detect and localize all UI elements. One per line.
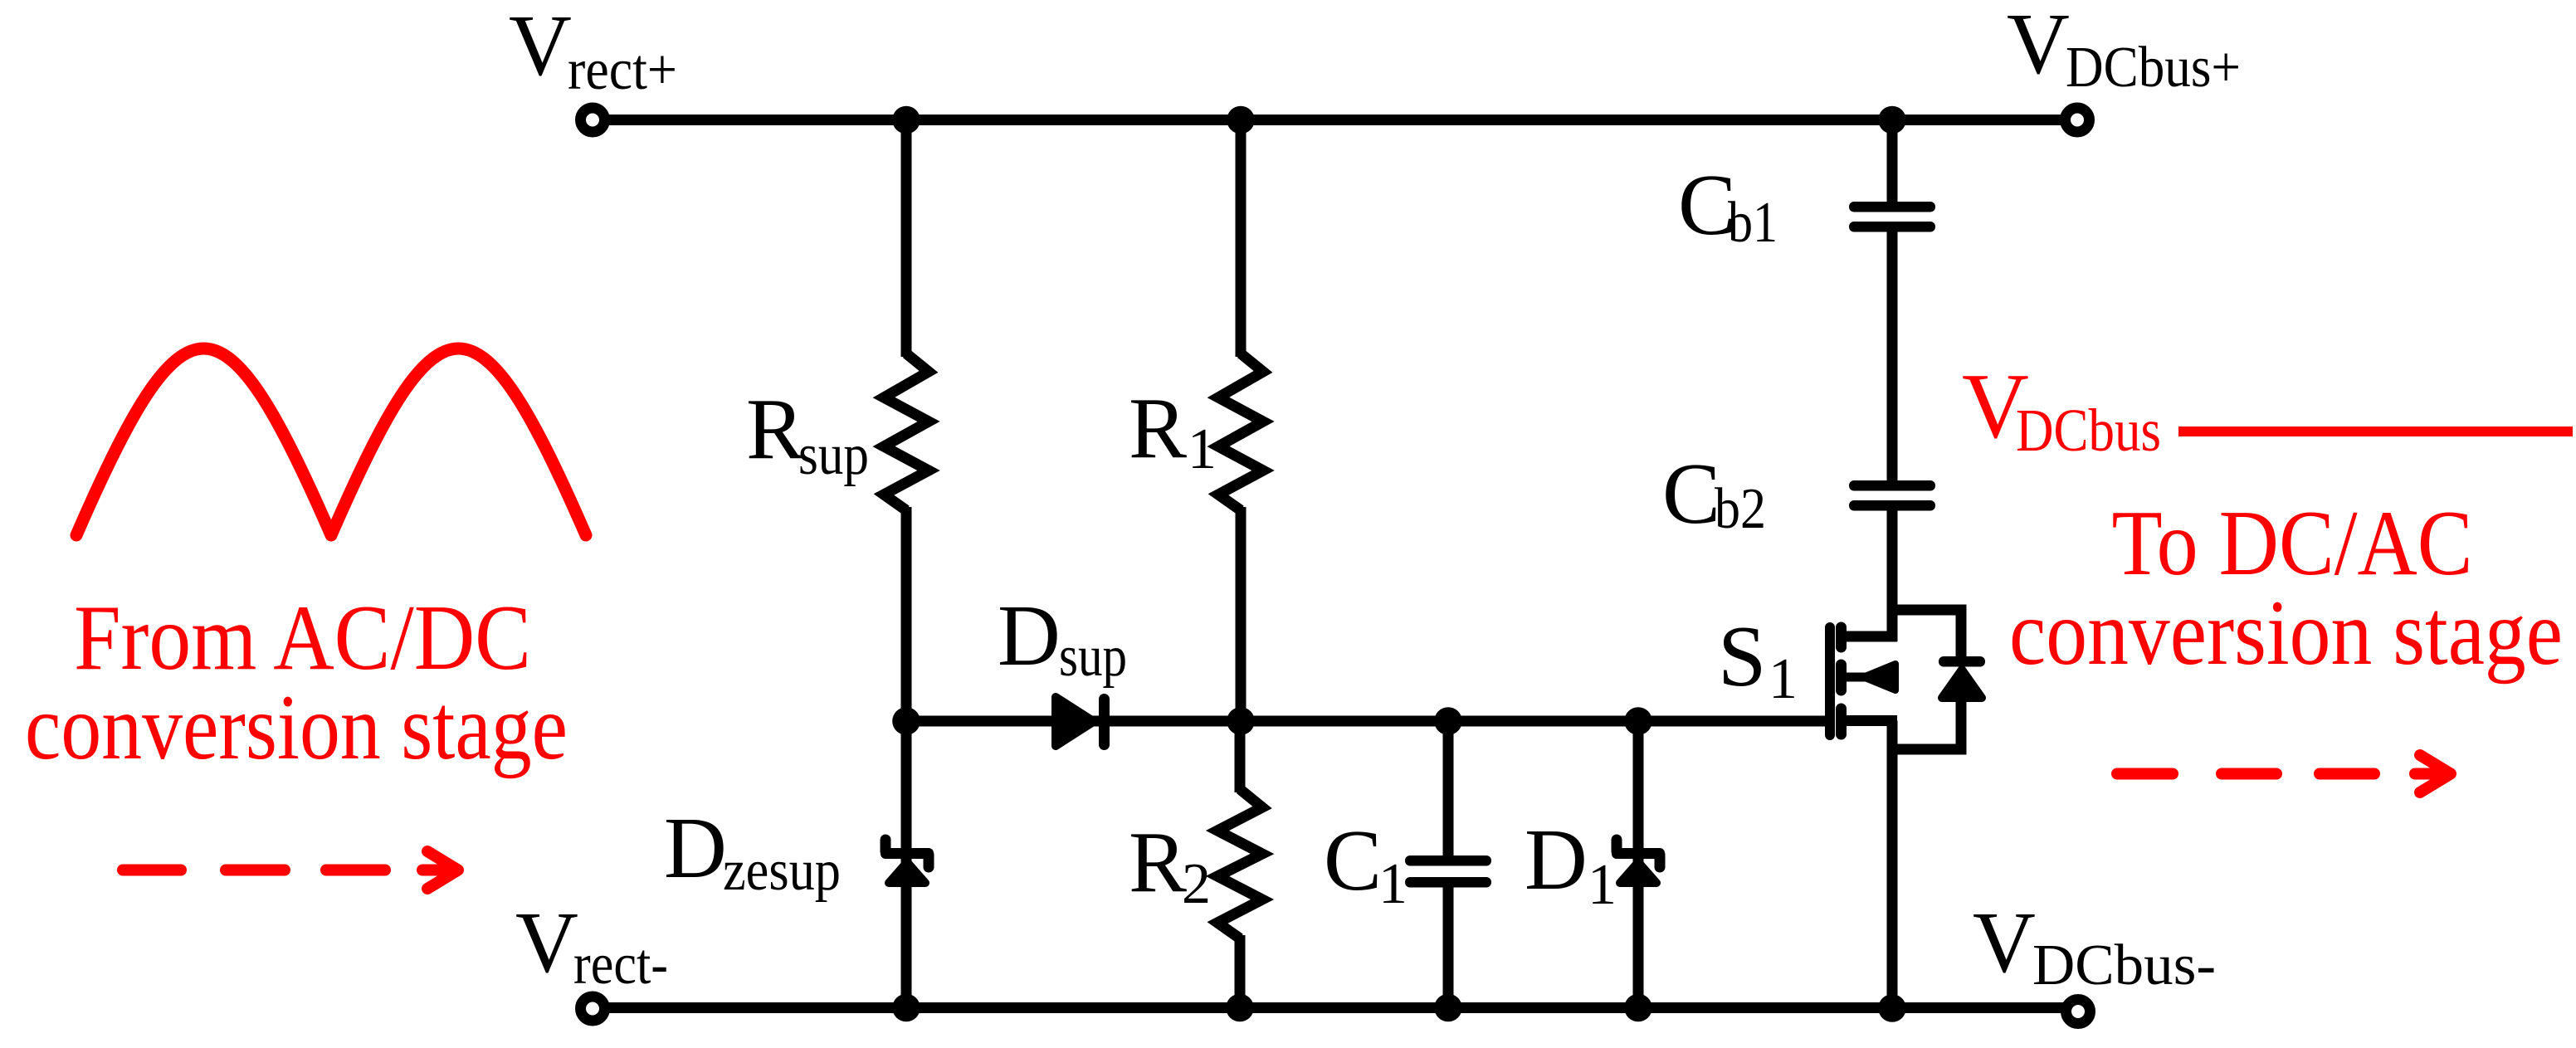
node middle rail at C1 <box>1434 707 1462 735</box>
dashed arrow to DC/AC <box>2117 755 2451 792</box>
wire R1 to middle rail <box>1236 507 1247 721</box>
channel segment top <box>1836 627 1847 647</box>
terminal Vrect+ <box>581 108 605 132</box>
wire R2 top lead <box>1235 721 1246 792</box>
diode Dsup <box>1056 694 1110 750</box>
dashed arrow from AC/DC <box>123 851 458 889</box>
svg-text:D: D <box>998 587 1061 684</box>
svg-text:V: V <box>515 894 578 991</box>
svg-text:R: R <box>1129 379 1187 476</box>
node bottom rail at C1 <box>1434 994 1462 1022</box>
diode bar <box>1939 656 1985 667</box>
terminal VDCbus+ <box>2066 108 2090 132</box>
capacitor Cb2 <box>1849 480 1935 511</box>
svg-text:sup: sup <box>798 423 869 487</box>
body diode branch of S1 <box>1892 610 1985 749</box>
resistor R2 <box>1217 789 1262 938</box>
zener diode D1 <box>1612 840 1665 883</box>
wire Cb1 to Cb2 <box>1887 230 1898 484</box>
terminal Vrect- <box>581 997 605 1021</box>
wire Cb2 to S1 drain <box>1887 509 1898 641</box>
svg-text:b1: b1 <box>1728 191 1778 255</box>
svg-text:1: 1 <box>1588 853 1617 917</box>
source connection <box>1842 715 1898 726</box>
terminal VDCbus- <box>2066 1000 2091 1024</box>
svg-text:R: R <box>1129 813 1187 910</box>
transistor S1 MOSFET <box>1830 627 1897 735</box>
wire D1 column <box>1633 721 1644 1007</box>
svg-text:1: 1 <box>1188 417 1217 481</box>
drain connection <box>1842 631 1898 642</box>
wire bottom branch <box>1892 698 1961 749</box>
svg-text:DCbus-: DCbus- <box>2032 933 2216 997</box>
wire C1 top lead <box>1443 721 1454 857</box>
node top rail at Cb1 <box>1878 106 1906 134</box>
node top rail at R1 <box>1227 106 1255 134</box>
diode triangle <box>1942 670 1982 698</box>
resistor Rsup <box>884 353 929 510</box>
node bottom rail at S1 source <box>1878 994 1906 1022</box>
wire C1 bottom lead <box>1443 885 1454 1007</box>
wire middle rail node A <box>906 716 1826 727</box>
svg-text:C: C <box>1662 445 1720 542</box>
svg-text:S: S <box>1718 607 1766 704</box>
gate bar <box>1825 627 1835 735</box>
capacitor Cb1 <box>1849 202 1935 232</box>
wire top branch <box>1892 610 1961 659</box>
wire Cb column top <box>1887 119 1898 205</box>
wire S1 source to bottom rail <box>1887 721 1898 1008</box>
wire bottom rail Vrect- to VDCbus- <box>593 1002 2068 1013</box>
zener diode Dzesup <box>881 840 934 883</box>
channel segment bottom <box>1836 709 1847 734</box>
node bottom rail at D1 <box>1624 994 1652 1022</box>
svg-text:zesup: zesup <box>723 839 841 903</box>
node bottom rail at R2 <box>1226 994 1254 1022</box>
wire Rsup to middle rail <box>901 507 912 721</box>
capacitor C1 <box>1405 855 1491 888</box>
svg-text:DCbus+: DCbus+ <box>2066 36 2241 100</box>
svg-text:From AC/DC: From AC/DC <box>74 587 531 690</box>
svg-text:rect-: rect- <box>573 933 668 997</box>
DC bus level line <box>2178 427 2573 436</box>
node middle rail at R1/R2 <box>1227 707 1255 735</box>
node middle rail at Rsup/Dzesup <box>892 707 920 735</box>
resistor R1 <box>1218 353 1263 510</box>
svg-text:sup: sup <box>1059 625 1127 689</box>
svg-text:DCbus: DCbus <box>2016 397 2161 464</box>
svg-text:D: D <box>1525 811 1588 908</box>
wire Rsup column <box>901 119 912 357</box>
svg-text:1: 1 <box>1378 852 1408 916</box>
svg-text:C: C <box>1324 812 1382 909</box>
svg-text:To DC/AC: To DC/AC <box>2112 492 2473 595</box>
node top rail at Rsup <box>892 106 920 134</box>
rectified sine waveform annotation <box>76 349 586 535</box>
wire R1 column <box>1236 119 1247 357</box>
arrow on middle segment <box>1847 673 1867 682</box>
node middle rail at D1 <box>1624 707 1652 735</box>
svg-text:conversion stage: conversion stage <box>2009 582 2563 685</box>
channel segment middle <box>1836 665 1847 690</box>
wire top rail Vrect+ to VDCbus+ <box>593 115 2077 125</box>
svg-text:2: 2 <box>1182 852 1211 916</box>
svg-text:V: V <box>1973 894 2036 991</box>
svg-text:V: V <box>509 0 572 94</box>
svg-text:1: 1 <box>1769 647 1798 711</box>
wire R2 bottom lead <box>1235 935 1246 1007</box>
node bottom rail at Dzesup <box>892 994 920 1022</box>
svg-text:rect+: rect+ <box>568 38 677 102</box>
svg-text:V: V <box>2007 0 2070 92</box>
svg-text:b2: b2 <box>1715 477 1766 541</box>
svg-text:D: D <box>664 799 727 896</box>
svg-text:conversion stage: conversion stage <box>25 676 568 779</box>
svg-text:R: R <box>746 380 804 477</box>
wire Dzesup column <box>901 721 912 1007</box>
